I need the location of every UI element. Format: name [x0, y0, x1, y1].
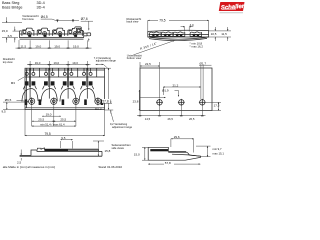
- svg-text:22,5: 22,5: [145, 62, 151, 66]
- svg-text:Ø7,6: Ø7,6: [81, 17, 88, 21]
- svg-text:6,5: 6,5: [8, 34, 13, 38]
- svg-text:26,5: 26,5: [189, 117, 195, 121]
- svg-text:10,5: 10,5: [211, 32, 217, 36]
- svg-text:11,5: 11,5: [21, 44, 27, 48]
- svg-text:3D-4: 3D-4: [37, 1, 45, 5]
- svg-text:9,5: 9,5: [2, 109, 7, 113]
- svg-text:Ø6,5: Ø6,5: [5, 98, 12, 102]
- svg-text:19,0: 19,0: [35, 44, 41, 48]
- svg-text:79,5: 79,5: [45, 132, 51, 136]
- svg-text:57,8: 57,8: [165, 161, 171, 165]
- svg-text:Bass Steg: Bass Steg: [2, 1, 19, 5]
- svg-text:max 15,1: max 15,1: [212, 151, 224, 155]
- svg-text:19,0: 19,0: [73, 44, 79, 48]
- svg-text:Ø1,7: Ø1,7: [200, 61, 207, 65]
- svg-text:14,5: 14,5: [145, 117, 151, 121]
- svg-text:9,5: 9,5: [61, 136, 66, 140]
- svg-text:front view: front view: [22, 17, 34, 21]
- svg-text:Ø1,9: Ø1,9: [162, 89, 169, 93]
- svg-text:Bass Bridge: Bass Bridge: [2, 6, 22, 10]
- svg-text:back view: back view: [127, 20, 139, 24]
- svg-text:26,5: 26,5: [168, 117, 174, 121]
- svg-text:21,2: 21,2: [173, 83, 179, 87]
- svg-text:Ø2,5: Ø2,5: [95, 107, 102, 111]
- svg-text:Ø4,5: Ø4,5: [41, 15, 48, 19]
- svg-text:* max 16,2: * max 16,2: [190, 44, 204, 48]
- svg-text:4,0: 4,0: [190, 23, 194, 27]
- svg-text:17,5: 17,5: [214, 103, 220, 107]
- svg-text:15,0: 15,0: [2, 29, 8, 33]
- svg-text:top view: top view: [3, 60, 13, 64]
- svg-text:19,0: 19,0: [46, 112, 52, 116]
- svg-text:adjustment range: adjustment range: [112, 125, 133, 129]
- svg-text:19,0: 19,0: [72, 61, 78, 65]
- svg-text:adjustment range: adjustment range: [96, 59, 117, 63]
- svg-text:11,5: 11,5: [221, 32, 227, 36]
- svg-text:15,8: 15,8: [105, 149, 111, 153]
- svg-text:25,5: 25,5: [38, 117, 44, 121]
- svg-text:15,0: 15,0: [134, 153, 140, 157]
- svg-text:bottom view: bottom view: [127, 56, 141, 60]
- svg-text:29,6: 29,6: [174, 135, 180, 139]
- svg-text:min 51,4 / max 61,4: min 51,4 / max 61,4: [40, 122, 65, 126]
- svg-text:25,5: 25,5: [60, 117, 66, 121]
- svg-text:23,8: 23,8: [133, 100, 139, 104]
- svg-text:Stand 01.06.2010: Stand 01.06.2010: [98, 165, 122, 169]
- svg-text:2,5: 2,5: [17, 161, 22, 165]
- svg-text:79,5: 79,5: [159, 19, 165, 23]
- svg-text:19,0: 19,0: [54, 61, 60, 65]
- svg-text:19,0: 19,0: [35, 61, 41, 65]
- svg-text:M3: M3: [11, 81, 15, 85]
- svg-text:alle Maße in [mm] all measur: alle Maße in [mm] all measures in [mm]: [3, 165, 56, 169]
- svg-text:19,0: 19,0: [54, 44, 60, 48]
- svg-text:3D-4: 3D-4: [37, 6, 45, 10]
- svg-text:side views: side views: [112, 146, 125, 150]
